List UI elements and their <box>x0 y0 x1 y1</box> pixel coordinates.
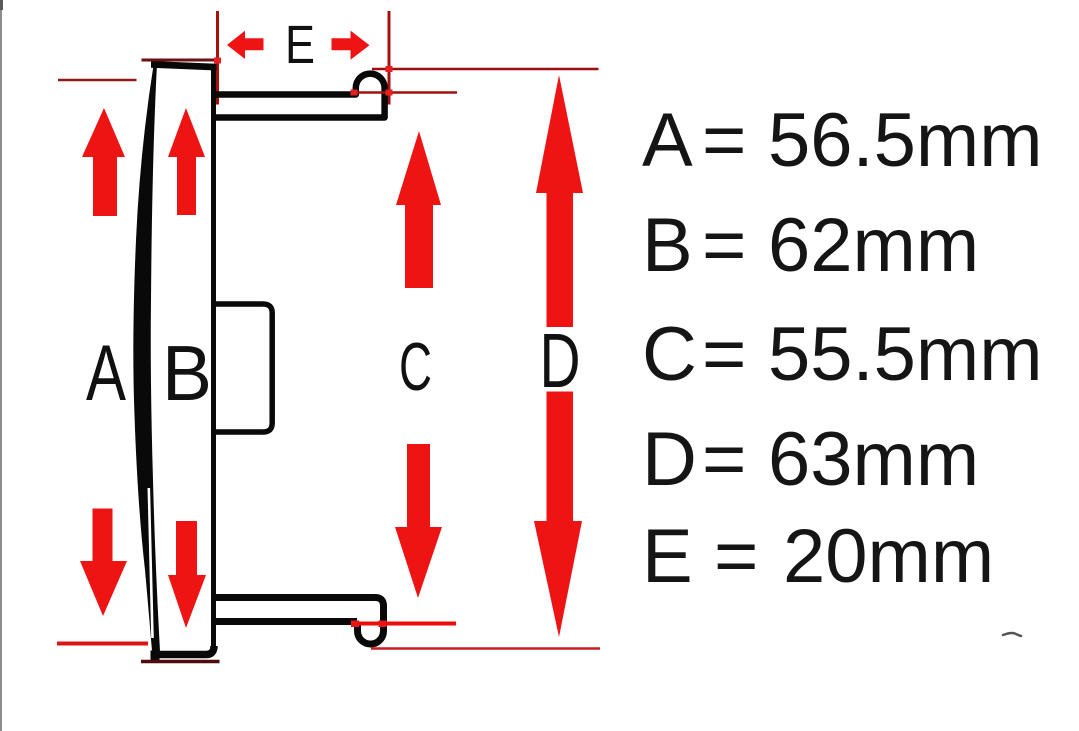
cap column right edge <box>211 66 216 648</box>
svg-text:D: D <box>540 318 581 404</box>
top flange with hook <box>211 74 385 118</box>
crossing tick at right line y69 <box>386 66 393 72</box>
dim line bottom long y648 <box>371 647 600 650</box>
svg-text:63mm: 63mm <box>768 417 979 502</box>
svg-text:=: = <box>702 312 746 397</box>
middle clip tab <box>213 304 272 432</box>
bottom rim left foot <box>151 651 160 661</box>
svg-text:D: D <box>642 417 697 502</box>
arrow B up <box>168 108 205 215</box>
svg-text:B: B <box>162 329 212 417</box>
left page edge line <box>0 0 2 731</box>
svg-text:E: E <box>642 514 693 599</box>
svg-text:=: = <box>702 203 746 288</box>
dim line top right y92 <box>351 91 457 94</box>
arrow D double stem <box>547 193 574 521</box>
svg-text:56.5mm: 56.5mm <box>768 98 1043 183</box>
bottom flange bottom line <box>211 618 357 625</box>
small gray squiggle bottom right <box>1003 633 1021 636</box>
arrow E left <box>227 31 264 59</box>
svg-text:A: A <box>86 328 126 417</box>
arrow C up <box>396 131 441 288</box>
svg-text:A: A <box>642 98 693 183</box>
svg-text:62mm: 62mm <box>768 203 979 288</box>
svg-text:=: = <box>702 417 746 502</box>
svg-text:E: E <box>285 15 315 75</box>
left page edge dark tip <box>0 0 3 10</box>
crossing tick at E left line <box>214 58 221 64</box>
crossing blob bottom hook left <box>351 621 359 628</box>
svg-text:55.5mm: 55.5mm <box>768 312 1043 397</box>
dim line top right y69 <box>372 68 599 71</box>
bottom flange top line with right edge and hook U <box>211 598 384 645</box>
svg-text:C: C <box>642 312 697 397</box>
dim line bottom left bright y643 <box>57 642 148 646</box>
crossing tick at right line y92 <box>386 90 393 96</box>
cap face inner gap sliver <box>149 488 153 638</box>
bottom rim <box>152 646 214 655</box>
dim line bottom bright y623 <box>353 622 456 626</box>
arrow D bottom head <box>534 521 582 637</box>
svg-text:20mm: 20mm <box>783 514 994 599</box>
svg-text:B: B <box>642 203 693 288</box>
dim line under bottom rim maroon <box>141 660 220 664</box>
arrow B down <box>168 521 206 628</box>
E extension line right vertical <box>388 11 391 105</box>
crossing blob bottom hook right <box>379 621 387 628</box>
arrow A down <box>80 509 127 617</box>
cap outer face crescent (A profile) <box>133 62 160 651</box>
arrow E right <box>332 31 370 60</box>
svg-text:=: = <box>714 514 758 599</box>
arrow C down <box>395 444 442 598</box>
E extension line left vertical <box>216 11 219 105</box>
svg-text:=: = <box>702 98 746 183</box>
crossing tick hook y92 <box>351 90 358 96</box>
cap top rim <box>151 61 217 71</box>
dim line top-left maroon over rim <box>142 59 220 62</box>
dim line far left y80 <box>58 79 137 82</box>
arrow D label gap <box>538 327 582 392</box>
arrow D top head <box>536 75 583 193</box>
svg-text:C: C <box>399 329 432 405</box>
arrow A up <box>82 108 125 216</box>
